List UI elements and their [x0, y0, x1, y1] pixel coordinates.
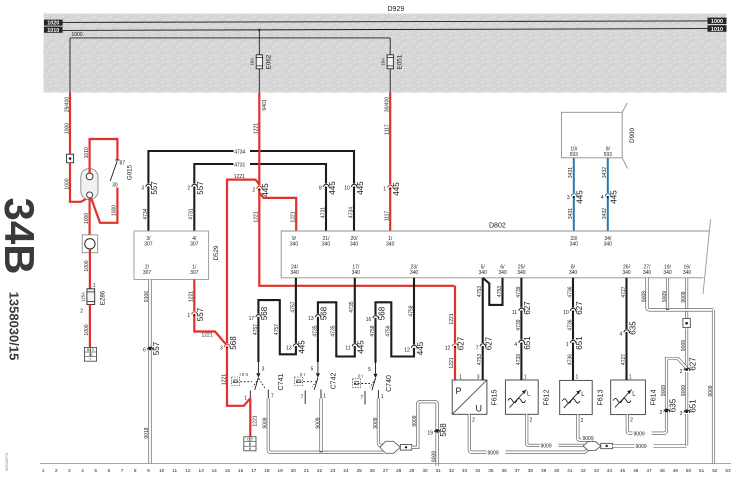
svg-text:4739: 4739 [516, 319, 522, 330]
svg-text:627: 627 [575, 301, 584, 315]
svg-text:3: 3 [141, 186, 144, 192]
wire drop to left column [69, 38, 71, 93]
ground wire 9009 between 3/651 and 2/627 [685, 372, 688, 409]
svg-text:1000: 1000 [112, 205, 118, 216]
svg-text:29: 29 [409, 468, 415, 473]
svg-text:41: 41 [567, 468, 573, 473]
wire 3432 blue [607, 158, 609, 231]
svg-text:1221: 1221 [254, 211, 260, 222]
svg-text:D802: D802 [489, 222, 506, 229]
svg-text:340: 340 [517, 270, 526, 276]
svg-text:2: 2 [252, 188, 255, 194]
svg-text:9009: 9009 [412, 415, 418, 426]
wire 1221 to C741 pin 1 [227, 348, 250, 406]
connector 3/651 [685, 410, 688, 413]
svg-text:34: 34 [475, 468, 481, 473]
svg-text:4758: 4758 [370, 325, 376, 336]
wire 4734 (horizontal run) [148, 151, 354, 231]
svg-text:12: 12 [185, 468, 191, 473]
connector 8/445 on wire 4731 [323, 183, 328, 188]
svg-text:2: 2 [581, 418, 584, 424]
svg-text:1: 1 [383, 187, 386, 193]
svg-text:627: 627 [456, 336, 465, 350]
svg-text:4753: 4753 [497, 286, 503, 297]
box D529 [134, 231, 209, 280]
wire feed E051 (from 1000 rail) [389, 38, 391, 55]
svg-text:568: 568 [377, 306, 386, 320]
svg-text:2: 2 [680, 369, 683, 375]
connector 1/445 red [388, 184, 393, 189]
svg-text:1000: 1000 [84, 213, 90, 224]
svg-text:4734: 4734 [348, 207, 354, 218]
ground wire 9009 splice to 19/568 [412, 402, 437, 466]
ground wire 9009 D802 16/340 [685, 278, 688, 318]
svg-text:28: 28 [396, 468, 402, 473]
svg-text:568: 568 [260, 306, 269, 320]
svg-text:1000: 1000 [64, 123, 70, 134]
fuse E062 10A [256, 55, 262, 69]
connector 19/568 [436, 430, 439, 433]
svg-text:445: 445 [261, 183, 270, 197]
svg-text:1000: 1000 [84, 324, 90, 335]
svg-text:18: 18 [264, 468, 270, 473]
svg-text:1020: 1020 [47, 21, 59, 27]
switch C741 [257, 362, 259, 373]
wire 1000 to fuse E286 [89, 249, 91, 289]
svg-text:P: P [456, 386, 462, 396]
svg-text:445: 445 [356, 181, 365, 195]
svg-text:3: 3 [680, 411, 683, 417]
svg-text:2: 2 [187, 186, 190, 192]
svg-text:38: 38 [528, 468, 534, 473]
pin 1 F613 [572, 372, 574, 381]
svg-text:340: 340 [569, 270, 578, 276]
switch C742 [317, 362, 319, 373]
ground wire 9009 D802 27/340 [647, 278, 714, 310]
svg-text:47: 47 [646, 468, 652, 473]
svg-text:30: 30 [422, 468, 428, 473]
svg-text:1010: 1010 [47, 28, 59, 34]
svg-text:9009: 9009 [681, 291, 687, 302]
svg-text:3: 3 [477, 375, 480, 381]
svg-text:E051: E051 [397, 54, 404, 69]
svg-text:2: 2 [55, 468, 58, 473]
svg-text:4: 4 [601, 195, 604, 201]
svg-text:F615: F615 [492, 389, 499, 405]
svg-text:D900: D900 [629, 128, 636, 143]
connector 12/445 [411, 344, 416, 349]
net box 1010 (left) [44, 27, 63, 33]
svg-text:13: 13 [286, 345, 292, 351]
svg-text:307: 307 [190, 241, 199, 247]
connector 12/627 red [452, 343, 457, 348]
svg-text:307: 307 [143, 270, 152, 276]
wire 1221 stub to terminal [249, 398, 251, 437]
svg-text:340: 340 [683, 270, 692, 276]
svg-text:340: 340 [322, 241, 331, 247]
svg-text:1: 1 [524, 375, 527, 381]
svg-text:1221: 1221 [221, 374, 227, 385]
svg-text:5: 5 [311, 367, 314, 373]
svg-text:1: 1 [381, 394, 384, 400]
connector 4/445 blue [605, 193, 610, 198]
svg-text:I 0 II: I 0 II [240, 372, 248, 377]
svg-text:10A: 10A [250, 58, 255, 66]
fuse E286 125A [87, 289, 95, 305]
wire 1010 (switch feed) [90, 139, 118, 173]
connector 1/557 red [192, 311, 197, 316]
svg-text:29/400: 29/400 [64, 97, 70, 113]
svg-text:46: 46 [633, 468, 639, 473]
pin 7 C742 [304, 391, 306, 405]
ground wire 9009 C742 pin 1 [319, 399, 322, 453]
connector 10/445 on wire 4734 [351, 183, 356, 188]
junction on 1010 rail [258, 29, 261, 32]
svg-text:4736: 4736 [567, 286, 573, 297]
svg-text:11: 11 [172, 468, 177, 473]
svg-text:4734: 4734 [143, 208, 149, 219]
svg-text:3: 3 [249, 442, 251, 446]
svg-text:568: 568 [439, 423, 448, 437]
svg-text:10A: 10A [381, 58, 386, 66]
inline connector (box with dot) [67, 154, 74, 163]
svg-text:1117: 1117 [385, 124, 391, 135]
svg-text:31: 31 [436, 468, 442, 473]
wire 1010 (second rail) [63, 29, 708, 31]
connector 16/568 [373, 315, 378, 320]
svg-text:307: 307 [144, 241, 153, 247]
svg-text:307: 307 [190, 270, 199, 276]
svg-text:4727: 4727 [621, 286, 627, 297]
svg-text:9009: 9009 [432, 451, 438, 462]
svg-text:557: 557 [152, 341, 161, 355]
ground wire 9009 F613 pin 2 [578, 415, 595, 444]
svg-text:25: 25 [357, 468, 363, 473]
svg-text:1000: 1000 [711, 19, 723, 25]
svg-text:9009: 9009 [636, 444, 647, 450]
svg-text:3: 3 [68, 468, 71, 473]
svg-text:B0 0: B0 0 [87, 348, 94, 352]
svg-text:C742: C742 [331, 373, 338, 390]
svg-text:3431: 3431 [568, 208, 574, 219]
wire feed E062 [258, 30, 260, 55]
svg-text:10: 10 [159, 468, 165, 473]
wire 4736 from D802 8/340 [572, 278, 574, 372]
svg-text:340: 340 [350, 241, 359, 247]
svg-text:1221: 1221 [253, 415, 259, 426]
connector 2/445 red [257, 185, 262, 190]
svg-text:4757: 4757 [290, 301, 296, 312]
svg-text:445: 445 [416, 341, 425, 355]
ground wire 9009 C740 pin 1 [378, 399, 383, 446]
splice pod right [583, 442, 601, 451]
pin 1 F614 [625, 372, 627, 381]
svg-text:568: 568 [320, 306, 329, 320]
svg-text:340: 340 [290, 241, 299, 247]
terminal box below C741 [244, 437, 256, 451]
svg-text:9009: 9009 [681, 340, 687, 351]
svg-text:12: 12 [445, 345, 451, 351]
svg-text:19: 19 [427, 431, 433, 437]
svg-text:340: 340 [604, 241, 613, 247]
svg-text:13: 13 [308, 316, 314, 322]
svg-text:40: 40 [554, 468, 560, 473]
svg-text:651: 651 [523, 336, 532, 350]
svg-text:4736: 4736 [567, 319, 573, 330]
svg-text:26: 26 [370, 468, 376, 473]
svg-text:9009: 9009 [583, 436, 594, 442]
junction 6/557 [149, 347, 152, 350]
wire 4735 from D802 17/340 [318, 278, 355, 362]
svg-text:1: 1 [566, 342, 569, 348]
svg-text:87: 87 [120, 161, 126, 167]
svg-text:17: 17 [251, 468, 257, 473]
ground wire 9009 D802 19/340 [666, 278, 669, 310]
svg-text:2: 2 [472, 418, 475, 424]
svg-text:7: 7 [271, 394, 274, 400]
svg-text:0 I: 0 I [358, 374, 363, 379]
svg-text:4731: 4731 [320, 207, 326, 218]
svg-text:4739: 4739 [516, 286, 522, 297]
svg-text:1358030/15: 1358030/15 [7, 292, 22, 361]
contact 87 [115, 159, 119, 161]
connector 2/557 [192, 183, 197, 188]
wire 1221 red drop to F615 [454, 286, 456, 380]
svg-text:340: 340 [570, 241, 579, 247]
connector 11/445 [352, 343, 357, 348]
wire 1020-1000 (top rail) [63, 21, 708, 23]
ground wire 9009 F614 pin 2 via 2/635 [627, 359, 686, 434]
pin 1 C740 [377, 390, 379, 399]
svg-text:33: 33 [462, 468, 468, 473]
svg-text:1010: 1010 [711, 27, 723, 33]
svg-text:4: 4 [81, 468, 84, 473]
svg-text:445: 445 [298, 340, 307, 354]
svg-text:445: 445 [610, 190, 619, 204]
svg-text:43: 43 [594, 468, 600, 473]
svg-text:4739: 4739 [516, 354, 522, 365]
svg-text:340: 340 [290, 270, 299, 276]
svg-text:42: 42 [580, 468, 586, 473]
terminal box (battery junction) [84, 347, 96, 361]
svg-text:19: 19 [277, 468, 283, 473]
svg-text:1: 1 [323, 394, 326, 400]
wire 1221 branch left [227, 180, 259, 346]
svg-text:27: 27 [383, 468, 389, 473]
svg-text:7: 7 [121, 468, 124, 473]
svg-text:35: 35 [488, 468, 494, 473]
pin 7 C741 [267, 390, 269, 399]
wire 1000 (third rail) [70, 37, 390, 39]
net box 1020 (left) [44, 20, 63, 26]
pin 1 C741 [249, 391, 251, 399]
svg-text:340: 340 [498, 270, 507, 276]
wire 9106 shielded from D529 2/307 [148, 280, 151, 464]
ground bus 9009 to right riser [613, 444, 687, 447]
svg-text:9009: 9009 [661, 385, 667, 396]
svg-text:6: 6 [143, 348, 146, 354]
svg-text:10: 10 [344, 186, 350, 192]
box F613 lamp motor [560, 380, 593, 414]
svg-text:1: 1 [576, 375, 579, 381]
connector 3/568 red on 1221 [224, 343, 229, 348]
svg-text:51: 51 [699, 468, 705, 473]
svg-text:C741: C741 [278, 374, 285, 391]
svg-text:9009: 9009 [681, 385, 687, 396]
svg-text:9009: 9009 [641, 291, 647, 302]
svg-text:445: 445 [392, 182, 401, 196]
svg-text:1221: 1221 [449, 313, 455, 324]
svg-text:D529: D529 [213, 245, 220, 260]
svg-text:15: 15 [225, 468, 231, 473]
svg-text:635: 635 [668, 398, 677, 412]
svg-text:22: 22 [317, 468, 323, 473]
connector 7/627 [480, 343, 485, 348]
connector 2/635 [665, 409, 668, 412]
ground wire 9009 F612 pin 2 [527, 414, 584, 445]
svg-text:445: 445 [357, 340, 366, 354]
wire 4731 (horizontal run) [194, 164, 326, 231]
wire 4757 from D802 24/340 [258, 278, 296, 362]
svg-text:9009: 9009 [634, 431, 645, 437]
svg-text:7: 7 [360, 395, 363, 401]
svg-text:340: 340 [352, 270, 361, 276]
svg-text:4757: 4757 [253, 324, 259, 335]
connector 10/627 [570, 307, 575, 312]
svg-text:125A: 125A [80, 292, 85, 302]
svg-text:1: 1 [42, 468, 45, 473]
svg-text:52: 52 [712, 468, 718, 473]
box F614 lamp motor [611, 380, 646, 415]
svg-text:557: 557 [196, 181, 205, 195]
svg-text:7: 7 [90, 357, 92, 361]
connector 2/627 [685, 368, 688, 371]
svg-text:16: 16 [238, 468, 244, 473]
svg-text:340: 340 [643, 270, 652, 276]
svg-text:1: 1 [459, 375, 462, 381]
svg-text:445: 445 [576, 190, 585, 204]
wire 1000 from contact 30 [91, 188, 117, 223]
module band D929 [44, 14, 727, 93]
svg-text:445: 445 [328, 181, 337, 195]
svg-text:1221: 1221 [449, 357, 455, 368]
svg-text:651: 651 [688, 399, 697, 413]
svg-text:4736: 4736 [567, 354, 573, 365]
svg-text:7: 7 [476, 345, 479, 351]
wire 4739 from D802 25/340 [520, 278, 522, 372]
svg-text:13: 13 [198, 468, 204, 473]
box F615 pressure sensor [452, 380, 487, 414]
svg-text:U: U [476, 404, 483, 414]
ground riser 9009 far right [712, 310, 715, 464]
svg-text:4731: 4731 [234, 162, 245, 168]
svg-text:EL065939: EL065939 [5, 453, 10, 472]
ground wire 9009 F615 pin 2 [469, 414, 590, 452]
svg-text:D929: D929 [388, 6, 405, 13]
net box 1000 (right) [708, 18, 727, 24]
switch body G015 (oval with contacts) [81, 169, 98, 200]
svg-text:53: 53 [725, 468, 731, 473]
ground junction box [683, 318, 690, 327]
svg-text:D 5: D 5 [247, 438, 252, 442]
net box 1010 (right) [708, 25, 727, 32]
switch C740 [375, 363, 377, 374]
svg-text:651: 651 [575, 336, 584, 350]
pin 7 C740 [364, 391, 366, 405]
svg-text:1: 1 [629, 375, 632, 381]
bottom ruler line [40, 463, 731, 465]
svg-text:1221: 1221 [202, 333, 213, 339]
svg-text:10: 10 [563, 310, 569, 316]
svg-text:4753: 4753 [477, 286, 483, 297]
svg-text:24: 24 [343, 468, 349, 473]
svg-text:5: 5 [368, 367, 371, 373]
svg-text:3431: 3431 [568, 167, 574, 178]
svg-text:14: 14 [212, 468, 218, 473]
svg-text:3432: 3432 [602, 208, 608, 219]
svg-text:4: 4 [514, 342, 517, 348]
svg-text:4727: 4727 [621, 354, 627, 365]
svg-text:3: 3 [567, 195, 570, 201]
svg-text:17: 17 [249, 316, 255, 322]
wire 1221 branch right to 9/340 [259, 193, 296, 232]
svg-text:36: 36 [501, 468, 507, 473]
svg-text:32: 32 [449, 468, 455, 473]
svg-text:4735: 4735 [349, 301, 355, 312]
ground wire 9009 C741 pin 7 [268, 399, 383, 453]
svg-text:627: 627 [688, 357, 697, 371]
svg-text:1: 1 [187, 313, 190, 319]
box D802 [281, 231, 709, 278]
svg-text:2: 2 [630, 418, 633, 424]
connector 17/568 [256, 314, 261, 319]
svg-text:9009: 9009 [263, 417, 269, 428]
wire 4753 from D802 5/340+6/340 [483, 278, 503, 305]
svg-text:2: 2 [80, 309, 83, 315]
svg-text:8: 8 [319, 186, 322, 192]
svg-text:1221: 1221 [234, 174, 245, 180]
connector 4/651 [519, 339, 524, 344]
svg-text:C740: C740 [386, 375, 393, 392]
svg-text:3432: 3432 [602, 167, 608, 178]
svg-text:7: 7 [301, 395, 304, 401]
wire E051 to band edge [389, 69, 391, 93]
svg-text:37: 37 [515, 468, 521, 473]
svg-text:1000: 1000 [64, 178, 70, 189]
svg-text:23: 23 [330, 468, 336, 473]
svg-text:627: 627 [485, 336, 494, 350]
wire 29/400 red (left supply) [69, 93, 71, 155]
wire 30/400-1117 red from E051 [389, 93, 391, 232]
svg-text:9009: 9009 [662, 291, 668, 302]
svg-text:50: 50 [686, 468, 692, 473]
svg-text:9106: 9106 [144, 291, 150, 302]
connector 3/445 blue [571, 193, 576, 198]
wire 9401/1221 red from E062 [259, 93, 454, 286]
svg-text:4731: 4731 [189, 208, 195, 219]
svg-text:9018: 9018 [144, 427, 150, 438]
svg-text:340: 340 [479, 270, 488, 276]
svg-text:5: 5 [94, 468, 97, 473]
svg-text:340: 340 [663, 270, 672, 276]
wire 1221 red from D529 1/307 [194, 280, 226, 346]
svg-text:20: 20 [291, 468, 297, 473]
wire 4758 from D802 23/340 [376, 278, 415, 363]
svg-text:1117: 1117 [385, 211, 391, 222]
svg-text:9009: 9009 [373, 417, 379, 428]
wire 1000 to terminal [89, 305, 91, 348]
svg-text:4756: 4756 [386, 325, 392, 336]
